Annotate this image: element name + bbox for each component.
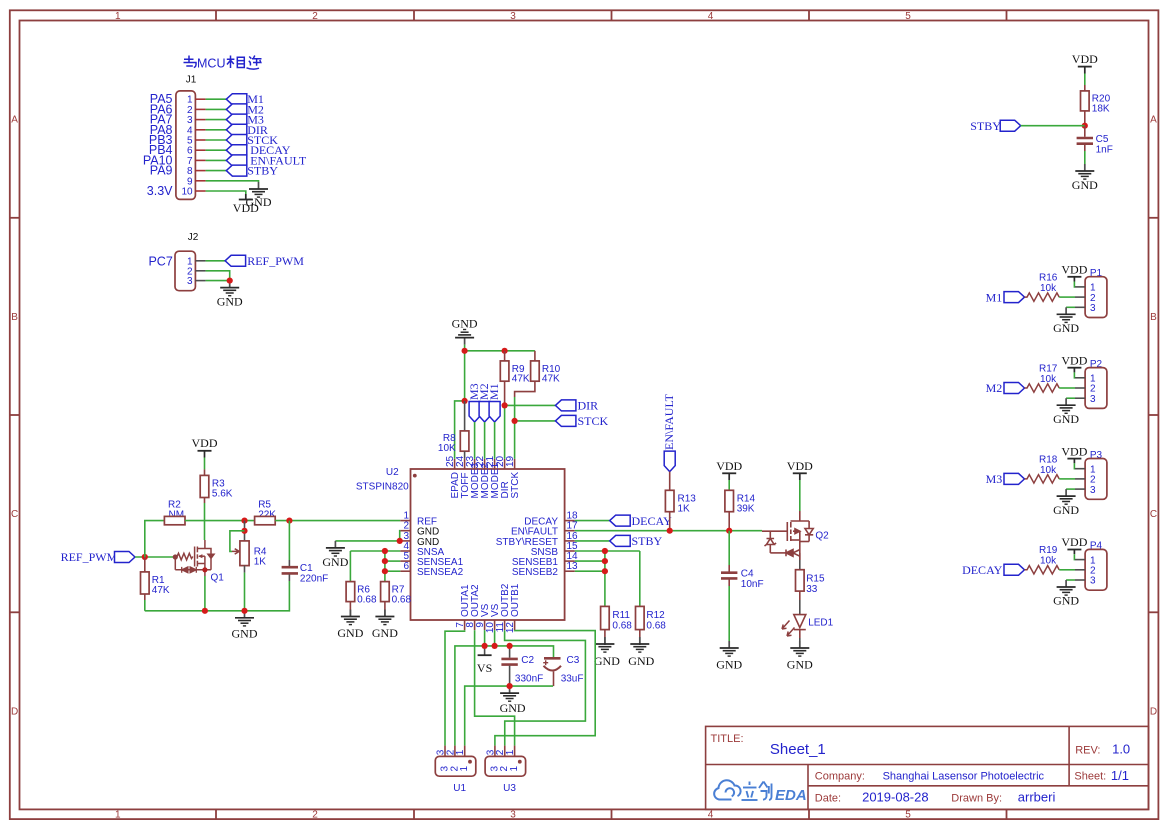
wire R5 to U2 pin1	[275, 520, 400, 522]
svg-text:1K: 1K	[254, 557, 267, 568]
junction	[227, 278, 233, 284]
svg-text:0.68: 0.68	[612, 621, 632, 632]
wire OUTA1 pin7 to U1.3	[445, 630, 465, 745]
wire pin2-pin3 join	[399, 531, 402, 541]
svg-text:Sheet_1: Sheet_1	[770, 741, 826, 758]
svg-text:5: 5	[905, 810, 911, 821]
svg-text:GND: GND	[787, 658, 813, 672]
ground U2 gnd pins	[326, 541, 345, 556]
svg-text:220nF: 220nF	[300, 573, 328, 584]
net label ENFAULT	[226, 155, 247, 166]
svg-text:PA9: PA9	[150, 164, 173, 178]
junction R13 bottom	[667, 528, 673, 534]
svg-text:3: 3	[510, 11, 516, 22]
svg-text:GND: GND	[1053, 594, 1079, 608]
svg-text:GND: GND	[217, 295, 243, 309]
net label STCK	[555, 415, 576, 426]
svg-text:4: 4	[708, 11, 714, 22]
svg-text:1: 1	[115, 11, 121, 22]
svg-text:3: 3	[1090, 485, 1096, 496]
svg-text:Company:: Company:	[815, 771, 865, 783]
svg-text:3: 3	[510, 810, 516, 821]
svg-text:GND: GND	[500, 701, 526, 715]
net label M1 vertical	[489, 402, 500, 423]
ground R6	[341, 610, 360, 625]
ground R11	[595, 637, 614, 652]
svg-text:REV:: REV:	[1075, 745, 1100, 757]
net label M3 vertical	[469, 402, 480, 423]
resistor R14	[725, 490, 734, 511]
capacitor C1	[288, 521, 290, 560]
svg-text:R17: R17	[1039, 363, 1058, 374]
svg-text:VS: VS	[477, 661, 492, 675]
svg-text:REF_PWM: REF_PWM	[247, 254, 304, 268]
svg-text:STSPIN820: STSPIN820	[356, 482, 409, 493]
svg-text:SENSEA2: SENSEA2	[417, 567, 464, 578]
svg-text:3: 3	[1090, 576, 1096, 587]
svg-text:VDD: VDD	[233, 201, 259, 215]
junction at R1 top	[142, 554, 148, 560]
svg-text:3: 3	[1090, 303, 1096, 314]
svg-text:1: 1	[455, 749, 466, 755]
ground P2	[1066, 397, 1075, 399]
svg-text:STBY: STBY	[970, 119, 1001, 133]
svg-text:47K: 47K	[152, 585, 170, 596]
J1 wires	[206, 99, 259, 194]
svg-text:STBY: STBY	[247, 164, 278, 178]
potentiometer R4 body	[240, 541, 249, 566]
op-amp U2 body	[411, 469, 565, 620]
svg-text:Shanghai Lasensor Photoelectri: Shanghai Lasensor Photoelectric	[883, 771, 1045, 783]
wire REF_PWM to gate	[135, 556, 175, 558]
svg-text:GND: GND	[1053, 503, 1079, 517]
svg-text:OUTB1: OUTB1	[510, 583, 521, 617]
wire R1 to rail	[144, 600, 146, 611]
resistor R3	[204, 469, 206, 475]
ground P1	[1066, 306, 1075, 308]
title 与MCU相连	[184, 56, 197, 68]
wire REF_PWM to R2 row	[145, 521, 165, 557]
U2 top pin stubs	[455, 459, 515, 469]
ground LED1	[790, 641, 809, 656]
junction SNSB sense dots	[602, 548, 608, 554]
net label REF_PWM	[225, 255, 246, 266]
resistor R9	[504, 351, 506, 361]
svg-text:M1: M1	[487, 383, 501, 400]
svg-text:R19: R19	[1039, 545, 1058, 556]
svg-text:STCK: STCK	[510, 472, 521, 499]
svg-text:1/1: 1/1	[1111, 768, 1129, 783]
U2 right pin numbers	[567, 511, 579, 573]
wire R16 to P1.2	[1059, 296, 1075, 298]
svg-text:VDD: VDD	[1061, 353, 1087, 367]
svg-text:10k: 10k	[1040, 465, 1057, 476]
capacitor C2	[509, 646, 511, 658]
svg-text:VDD: VDD	[192, 436, 218, 450]
svg-text:1: 1	[509, 766, 520, 772]
connector U1	[445, 746, 465, 757]
svg-text:DECAY: DECAY	[632, 514, 673, 528]
svg-text:R15: R15	[806, 574, 825, 585]
wire SNSA net	[350, 550, 400, 552]
wire ENFAULT row	[575, 530, 762, 532]
svg-text:REF_PWM: REF_PWM	[61, 550, 118, 564]
svg-text:10k: 10k	[1040, 283, 1057, 294]
svg-text:5: 5	[905, 11, 911, 22]
resistor R1	[144, 557, 146, 572]
ground P4	[1066, 579, 1075, 581]
svg-text:U1: U1	[453, 783, 466, 794]
svg-text:1.0: 1.0	[1112, 742, 1130, 757]
wire R3 to Q1 drain	[204, 503, 206, 540]
ground C4	[720, 641, 739, 656]
svg-text:10: 10	[181, 187, 193, 198]
resistor R10	[534, 351, 536, 361]
junction VS pins	[482, 643, 488, 649]
J2 pin stubs	[195, 261, 205, 281]
svg-text:VDD: VDD	[1072, 52, 1098, 66]
svg-text:GND: GND	[337, 626, 363, 640]
ground C5	[1075, 164, 1094, 179]
wire VDD to R3	[204, 458, 206, 470]
svg-text:3.3V: 3.3V	[147, 184, 173, 198]
junction rail R4	[241, 608, 247, 614]
svg-text:TITLE:: TITLE:	[711, 733, 744, 745]
svg-text:GND: GND	[372, 626, 398, 640]
svg-text:C2: C2	[521, 655, 534, 666]
wire R18 to P3.2	[1059, 478, 1075, 480]
svg-text:2019-08-28: 2019-08-28	[862, 790, 929, 805]
svg-text:C3: C3	[567, 655, 580, 666]
ground rail	[235, 611, 254, 626]
wire Q2 to R15	[799, 560, 801, 570]
wire OUTA2 pin8 to U3.1	[475, 630, 515, 745]
svg-text:B: B	[1150, 312, 1157, 323]
U2 right pin names	[496, 517, 559, 579]
ground P3	[1066, 488, 1075, 490]
U2 right pin stubs	[565, 521, 575, 572]
resistor R20	[1081, 91, 1090, 111]
J1 pin stubs	[195, 99, 205, 191]
connector U3	[495, 746, 515, 757]
potentiometer R4	[244, 521, 246, 541]
svg-text:VDD: VDD	[1061, 535, 1087, 549]
svg-text:J1: J1	[186, 75, 197, 86]
U2 bottom pin names	[460, 583, 521, 617]
net label M1	[226, 94, 247, 105]
row letters	[11, 115, 1157, 718]
R4 wiper wire	[230, 531, 245, 552]
svg-text:U3: U3	[503, 783, 516, 794]
svg-text:47K: 47K	[512, 374, 530, 385]
wire R10 to STCK row	[514, 397, 516, 421]
svg-text:47K: 47K	[542, 374, 560, 385]
U2 bottom pin numbers	[455, 622, 516, 634]
junction SNSA sense dots	[382, 548, 388, 554]
svg-text:A: A	[1150, 115, 1157, 126]
svg-text:R18: R18	[1039, 454, 1058, 465]
svg-text:5.6K: 5.6K	[212, 489, 233, 500]
net label STBY	[610, 535, 631, 546]
net label STCK	[226, 135, 247, 146]
wire DECAY	[575, 520, 610, 522]
svg-text:VDD: VDD	[1061, 444, 1087, 458]
svg-text:10k: 10k	[1040, 374, 1057, 385]
svg-text:3: 3	[1090, 394, 1096, 405]
svg-text:C5: C5	[1096, 134, 1109, 145]
svg-text:D: D	[1150, 706, 1157, 717]
logo lceda	[714, 780, 807, 804]
net label M2 vertical	[479, 402, 490, 423]
capacitor C5	[1084, 126, 1086, 137]
junction DIR row	[502, 402, 508, 408]
svg-text:GND: GND	[594, 654, 620, 668]
svg-text:Date:: Date:	[815, 793, 841, 805]
svg-text:Drawn By:: Drawn By:	[951, 793, 1002, 805]
wire STBY	[575, 540, 610, 542]
svg-text:Q1: Q1	[211, 573, 225, 584]
wire VS bus	[484, 630, 486, 646]
ground J1 pin9	[249, 182, 268, 197]
svg-text:R12: R12	[646, 610, 665, 621]
svg-text:GND: GND	[232, 627, 258, 641]
junction gnd	[462, 348, 468, 354]
resistor R7	[381, 582, 390, 602]
svg-text:1: 1	[505, 749, 516, 755]
svg-text:C: C	[11, 509, 18, 520]
svg-text:STCK: STCK	[578, 414, 609, 428]
svg-text:2: 2	[312, 810, 318, 821]
U2 top pin names	[450, 463, 521, 499]
junction R20 bottom	[1082, 123, 1088, 129]
svg-text:3: 3	[187, 276, 193, 287]
transistor Q1	[173, 540, 215, 576]
svg-text:EDA: EDA	[775, 787, 807, 804]
svg-text:arrberi: arrberi	[1018, 790, 1056, 805]
svg-text:1K: 1K	[678, 504, 691, 515]
svg-text:DIR: DIR	[578, 398, 599, 412]
resistor R13	[669, 472, 671, 491]
U2 bottom pin stubs	[465, 620, 515, 630]
resistor R11	[601, 606, 610, 629]
svg-text:GND: GND	[452, 317, 478, 331]
svg-text:VDD: VDD	[787, 459, 813, 473]
svg-text:GND: GND	[716, 658, 742, 672]
net label M2	[226, 104, 247, 115]
svg-text:6: 6	[403, 561, 409, 572]
svg-text:EN\FAULT: EN\FAULT	[662, 393, 676, 450]
capacitor C3	[544, 657, 561, 660]
junction C2 bottom	[507, 683, 513, 689]
transistor Q2	[762, 511, 813, 560]
ground R12	[630, 637, 649, 652]
wire OUTB1 pin12 to U3.3	[495, 630, 595, 745]
svg-text:J2: J2	[188, 232, 199, 243]
svg-text:2: 2	[312, 11, 318, 22]
svg-text:VDD: VDD	[716, 459, 742, 473]
wire R17 to P2.2	[1059, 387, 1075, 389]
U2 left pin numbers	[403, 511, 409, 573]
svg-text:A: A	[11, 115, 18, 126]
junction C1 top	[286, 518, 292, 524]
svg-text:C4: C4	[741, 569, 754, 580]
column numbers top	[115, 11, 911, 22]
svg-text:SENSEB2: SENSEB2	[512, 567, 559, 578]
junction R4 wiper	[241, 528, 247, 534]
wire R19 to P4.2	[1059, 569, 1075, 571]
U2 top pin numbers	[445, 455, 516, 467]
svg-text:GND: GND	[1053, 321, 1079, 335]
svg-text:330nF: 330nF	[515, 674, 543, 685]
resistor R8	[464, 401, 466, 431]
LED1	[782, 615, 806, 638]
svg-text:M1: M1	[986, 290, 1003, 304]
svg-text:C: C	[1150, 509, 1157, 520]
svg-text:DECAY: DECAY	[962, 563, 1003, 577]
svg-text:GND: GND	[628, 654, 654, 668]
svg-text:PC7: PC7	[148, 255, 172, 269]
net label DIR	[555, 400, 576, 411]
svg-text:33uF: 33uF	[561, 674, 584, 685]
capacitor C4	[728, 531, 730, 565]
svg-text:0.68: 0.68	[646, 621, 666, 632]
svg-text:R16: R16	[1039, 273, 1058, 284]
junction R9 top	[502, 348, 508, 354]
svg-text:GND: GND	[1053, 412, 1079, 426]
wire DIR row	[505, 404, 556, 406]
wire R2 to R5	[185, 520, 255, 522]
svg-text:1nF: 1nF	[1096, 145, 1113, 156]
svg-text:VDD: VDD	[1061, 263, 1087, 277]
svg-text:33: 33	[806, 584, 818, 595]
ground R7	[375, 610, 394, 625]
junction rail Q1	[202, 608, 208, 614]
power VS	[484, 646, 486, 655]
power VDD J1 pin10	[245, 194, 247, 200]
J1 left labels	[143, 92, 173, 198]
svg-text:M3: M3	[986, 472, 1003, 486]
wire Q1 source to rail	[204, 576, 206, 611]
svg-text:10K: 10K	[438, 443, 456, 454]
svg-text:0.68: 0.68	[392, 595, 412, 606]
svg-text:1: 1	[115, 810, 121, 821]
wire gnd bus	[455, 351, 535, 459]
ground C2 C3	[500, 686, 519, 701]
svg-text:10nF: 10nF	[741, 579, 764, 590]
junction STCK row	[511, 418, 517, 424]
net label DECAY	[610, 515, 631, 526]
net label DECAY	[226, 145, 247, 156]
ground J2	[220, 281, 239, 296]
svg-text:U2: U2	[386, 467, 399, 478]
svg-text:1: 1	[459, 766, 470, 772]
junction R8 top	[462, 398, 468, 404]
svg-text:GND: GND	[322, 555, 348, 569]
junction R4 top	[241, 518, 247, 524]
wire SNSB net	[575, 550, 640, 552]
resistor R12	[636, 606, 645, 629]
svg-text:18K: 18K	[1092, 104, 1110, 115]
svg-text:GND: GND	[1072, 178, 1098, 192]
wire R4 to rail	[244, 573, 246, 611]
net label STBY	[226, 165, 247, 176]
resistor R6	[346, 582, 355, 602]
U2 left pin stubs	[400, 521, 410, 572]
wire OUTB2 pin11 to U3.2	[505, 630, 586, 745]
svg-text:B: B	[11, 312, 18, 323]
title block	[706, 726, 1149, 809]
net label M3	[226, 114, 247, 125]
svg-text:Sheet:: Sheet:	[1074, 771, 1106, 783]
net label DIR	[226, 124, 247, 135]
svg-text:STBY: STBY	[632, 534, 663, 548]
svg-text:LED1: LED1	[808, 618, 833, 629]
svg-text:MCU: MCU	[197, 57, 225, 71]
column numbers bottom	[115, 810, 911, 821]
svg-text:R11: R11	[612, 610, 630, 621]
J2 wires	[206, 261, 230, 281]
wire STCK row	[515, 420, 556, 422]
svg-text:M2: M2	[986, 381, 1003, 395]
svg-text:D: D	[11, 706, 18, 717]
wire C1 to rail	[145, 581, 290, 611]
svg-text:Q2: Q2	[815, 531, 829, 542]
wire gnd bus bottom	[465, 686, 553, 746]
svg-text:0.68: 0.68	[357, 595, 377, 606]
junction R14 bottom	[726, 528, 732, 534]
svg-text:39K: 39K	[737, 504, 755, 515]
resistor R15	[796, 570, 805, 591]
svg-text:10k: 10k	[1040, 556, 1057, 567]
svg-text:4: 4	[708, 810, 714, 821]
